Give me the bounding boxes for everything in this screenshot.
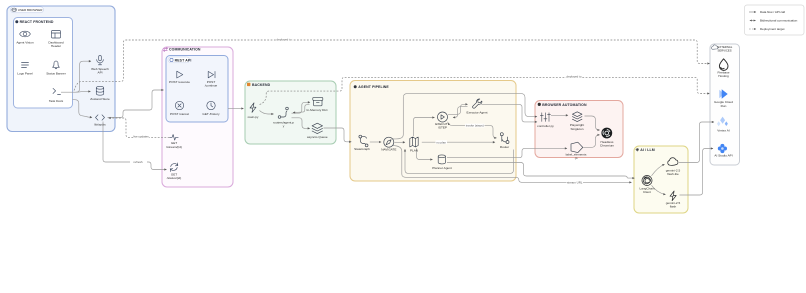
- svg-text:/continue: /continue: [205, 84, 218, 88]
- svg-text:NAVIGATE: NAVIGATE: [381, 148, 396, 152]
- svg-text:flash: flash: [670, 205, 677, 209]
- svg-text:Deployment target: Deployment target: [760, 27, 785, 31]
- svg-text:Data flow / API call: Data flow / API call: [760, 10, 785, 14]
- svg-text:USER BROWSER: USER BROWSER: [18, 8, 44, 12]
- svg-text:controller.py: controller.py: [537, 124, 554, 128]
- svg-text:Chromium: Chromium: [600, 143, 615, 147]
- svg-text:no plan: no plan: [436, 140, 446, 144]
- svg-text:BACKEND: BACKEND: [252, 83, 271, 87]
- svg-text:In-Memory Dict: In-Memory Dict: [307, 108, 328, 112]
- svg-text:REST API: REST API: [175, 58, 192, 62]
- svg-text:SERVICES: SERVICES: [718, 49, 732, 53]
- svg-text:.js: .js: [574, 156, 578, 160]
- svg-text:flash-lite: flash-lite: [667, 172, 679, 176]
- svg-text:Client: Client: [643, 190, 651, 194]
- svg-text:/stream/{id}: /stream/{id}: [166, 145, 182, 149]
- svg-text:GET /history: GET /history: [202, 112, 220, 116]
- svg-text:StateGraph: StateGraph: [354, 147, 370, 151]
- svg-text:REACT FRONTEND: REACT FRONTEND: [20, 20, 54, 24]
- svg-text:Executor Agent: Executor Agent: [467, 111, 488, 115]
- svg-text:deployed to: deployed to: [567, 75, 582, 79]
- svg-text:main.py: main.py: [248, 115, 259, 119]
- svg-text:Bidirectional communication: Bidirectional communication: [760, 19, 798, 23]
- svg-text:COMMUNICATION: COMMUNICATION: [169, 48, 201, 52]
- svg-text:Run: Run: [721, 104, 727, 108]
- svg-text:stream URL: stream URL: [567, 180, 583, 184]
- svg-text:refresh: refresh: [134, 160, 143, 164]
- svg-text:Planner Agent: Planner Agent: [432, 166, 452, 170]
- svg-text:AI / LLM: AI / LLM: [640, 148, 654, 152]
- svg-text:deployed to: deployed to: [277, 37, 292, 41]
- svg-text:Task Dock: Task Dock: [49, 99, 64, 103]
- svg-text:asyncio Queue: asyncio Queue: [307, 135, 328, 139]
- svg-text:lib/api.ts: lib/api.ts: [94, 123, 106, 127]
- svg-text:API: API: [98, 70, 103, 74]
- svg-text:invoke (steps): invoke (steps): [466, 124, 484, 128]
- svg-text:PLAN: PLAN: [410, 149, 418, 153]
- svg-text:Hosting: Hosting: [718, 74, 729, 78]
- svg-text:Singleton: Singleton: [571, 127, 584, 131]
- svg-text:Logs Panel: Logs Panel: [17, 72, 33, 76]
- svg-text:Vertex AI: Vertex AI: [717, 128, 730, 132]
- svg-text:AI Studio API: AI Studio API: [714, 153, 732, 157]
- svg-text:POST /cancel: POST /cancel: [170, 112, 189, 116]
- svg-text:Header: Header: [51, 44, 61, 48]
- svg-text:BROWSER AUTOMATION: BROWSER AUTOMATION: [542, 103, 587, 107]
- svg-text:Agent Vision: Agent Vision: [16, 41, 34, 45]
- svg-text:Zustand Store: Zustand Store: [90, 97, 110, 101]
- svg-text:/status/{id}: /status/{id}: [167, 176, 181, 180]
- svg-text:AGENT PIPELINE: AGENT PIPELINE: [358, 85, 389, 89]
- svg-text:/STEP: /STEP: [438, 126, 447, 130]
- svg-text:Router: Router: [500, 145, 509, 149]
- svg-text:live updates: live updates: [133, 135, 149, 139]
- svg-text:Status Banner: Status Banner: [46, 72, 66, 76]
- svg-text:POST /execute: POST /execute: [169, 80, 190, 84]
